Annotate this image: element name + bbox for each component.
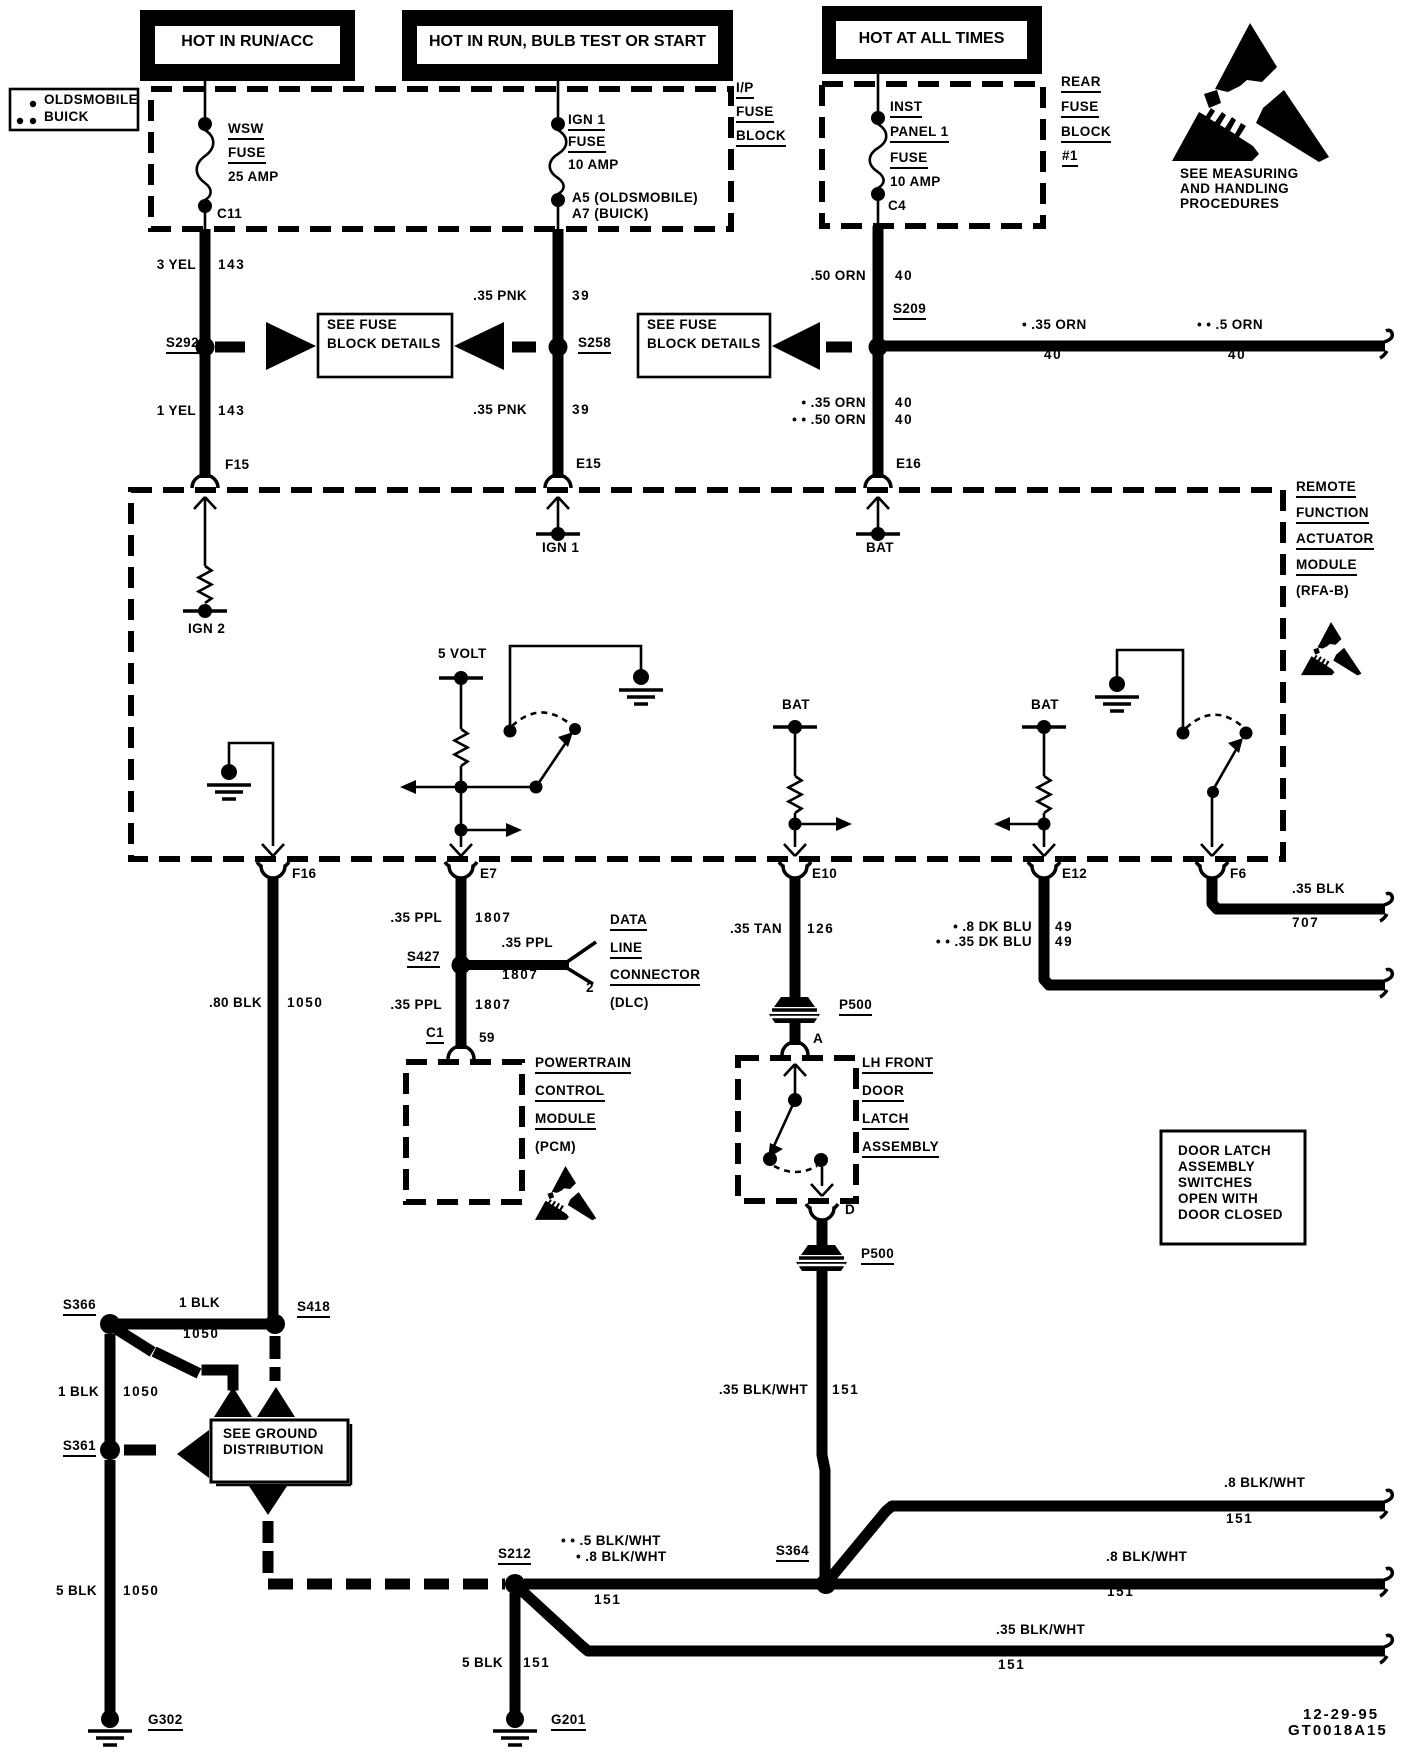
door latch note box [1161, 1131, 1305, 1244]
arrow S361 wire to ground distribution [177, 1430, 209, 1478]
connector F6 cup [1196, 862, 1228, 878]
pin E12 arrow down [1033, 844, 1055, 856]
label .80 BLK [209, 996, 262, 1010]
pin F6 arrow down [1201, 844, 1223, 856]
fuse IGN1 element [550, 130, 567, 194]
label HOT IN RUN/ACC [155, 34, 340, 50]
label 25 AMP [228, 170, 279, 184]
wire 5 BLK 151 (S212 to G201) [510, 1593, 521, 1713]
label 39 [572, 289, 590, 303]
wire C11 to box edge [204, 212, 207, 229]
label ASSEMBLY [1178, 1160, 1255, 1174]
label REAR [1061, 75, 1101, 93]
fuse WSW terminal dot top [198, 117, 212, 131]
label INST [890, 100, 922, 118]
label BLOCK [1061, 125, 1111, 143]
wire .80 BLK 1050 (F16 to S418) [268, 878, 279, 1320]
label 40 [895, 396, 913, 410]
label E15 [576, 457, 601, 471]
label S212 [498, 1547, 531, 1565]
label FUSE [568, 135, 606, 153]
wire .35 PNK 39 lower [553, 352, 564, 478]
SEE FUSE BLOCK DETAILS box 2 [638, 314, 770, 377]
label OPEN WITH [1178, 1192, 1258, 1206]
label AND HANDLING [1180, 182, 1289, 196]
wire DK BLU 49 (E12 right) [1044, 878, 1385, 985]
label 1050 [183, 1327, 219, 1341]
junction dot 5V ladder [455, 781, 468, 794]
label BLOCK DETAILS [647, 337, 761, 351]
junction dot E10 [789, 818, 802, 831]
dashed wire S361 to ground distribution arrow [124, 1445, 156, 1456]
label FUSE [1061, 100, 1099, 118]
ground inside RFA left (F16 circuit) [207, 764, 251, 799]
label ASSEMBLY [862, 1140, 939, 1158]
switch S2 blade with arrowhead [1213, 748, 1237, 790]
ground G302 [88, 1710, 132, 1745]
small ESD symbol in RFA [1301, 622, 1361, 676]
label 151 [998, 1658, 1025, 1672]
label SEE GROUND [223, 1427, 318, 1441]
label FUSE [228, 146, 266, 164]
label (RFA-B) [1296, 584, 1349, 598]
label IGN 1 [542, 541, 579, 555]
pin F16 arrow down [262, 844, 284, 856]
label SWITCHES [1178, 1176, 1252, 1190]
connector F15 cup [192, 475, 218, 488]
wire .35 PPL 1807 (S427 to C1) [456, 972, 467, 1049]
label 40 [895, 269, 913, 283]
DLC fork terminal [567, 942, 596, 984]
label • • .35 DK BLU [936, 935, 1032, 949]
label A7 (BUICK) [572, 207, 649, 221]
splice S366 [100, 1314, 120, 1334]
left arrow signal out [414, 786, 455, 789]
label .35 PNK [473, 403, 527, 417]
label 1 BLK [58, 1385, 99, 1399]
pin E7 arrow down [450, 836, 472, 856]
fuse INST element [870, 124, 887, 188]
wire end curl BLK 707 [1380, 893, 1392, 921]
label CONTROL [535, 1084, 605, 1102]
label 40 [895, 413, 913, 427]
connector E7 cup [445, 862, 477, 878]
ground inside RFA right (F6 circuit) [1095, 676, 1139, 711]
LH front door latch assembly dashed box [738, 1058, 856, 1201]
wire ORN down to E16 [873, 352, 884, 478]
label .8 BLK/WHT [1106, 1550, 1187, 1564]
dashed wire arrow to S209 [826, 342, 852, 353]
switch S1 blade with arrowhead [536, 741, 567, 787]
wire .35 BLK/WHT 151 lower branch [520, 1589, 1385, 1651]
label G201 [551, 1713, 586, 1731]
splice S212 [505, 1574, 525, 1594]
label S366 [63, 1298, 96, 1316]
I/P fuse block dashed box [151, 89, 731, 229]
node BAT E12 [1022, 720, 1066, 734]
label 49 [1055, 920, 1073, 934]
label 40 [1228, 348, 1246, 362]
small ESD symbol at PCM [535, 1166, 596, 1220]
label 151 [594, 1593, 621, 1607]
wire .8 BLK/WHT 151 upper branch [828, 1506, 1385, 1581]
dashed wire S258 to fuse details arrow [512, 342, 536, 353]
label .35 PNK [473, 289, 527, 303]
label F16 [292, 867, 316, 881]
label 1 YEL [157, 404, 196, 418]
splice S258 [549, 338, 568, 357]
label BLOCK [736, 129, 786, 147]
label OLDSMOBILE [44, 93, 138, 107]
label S364 [776, 1544, 809, 1562]
wire S427 to DLC fork [468, 960, 569, 970]
switch S1 throw dot [569, 723, 581, 735]
label ACTUATOR [1296, 532, 1374, 550]
label 707 [1292, 916, 1319, 930]
label • • .50 ORN [792, 413, 866, 427]
fuse INST terminal dot bottom C4 [871, 187, 885, 201]
wire 1 BLK 1050 (S366-S361) [105, 1334, 116, 1445]
node BAT E10 [773, 720, 817, 734]
junction dot E7 branch [455, 824, 468, 837]
label .35 PPL [390, 998, 442, 1012]
switch S1 travel dashed arc [512, 712, 570, 726]
latch switch pivot dot [788, 1093, 802, 1107]
label E16 [896, 457, 921, 471]
fuse IGN1 terminal dot bottom A5/A7 [551, 193, 565, 207]
resistor E12 pullup [1038, 776, 1051, 813]
junction dot E12 [1038, 818, 1051, 831]
latch switch lower contact dot [763, 1152, 777, 1166]
SEE GROUND DISTRIBUTION box [211, 1420, 351, 1485]
label 59 [479, 1031, 495, 1045]
switch S2 blade pivot dot [1207, 786, 1219, 798]
label E12 [1062, 867, 1087, 881]
left arrow signal out E12 [1008, 823, 1038, 826]
pin E15 arrow inside RFA [547, 497, 569, 528]
legend box OLDSMOBILE/BUICK [10, 89, 138, 130]
label 5 BLK [462, 1656, 503, 1670]
label F15 [225, 458, 249, 472]
label .50 ORN [811, 269, 866, 283]
fuse WSW terminal dot bottom C11 [198, 199, 212, 213]
label G302 [148, 1713, 183, 1731]
dashed wire S366 to ground distribution arrow [118, 1330, 233, 1385]
grommet P500 lower [796, 1245, 847, 1271]
right arrow signal out E10 [801, 823, 838, 826]
label HOT IN RUN, BULB TEST OR START [417, 34, 718, 50]
label 40 [1044, 348, 1062, 362]
wire ground to switch S2 fixed contact [1117, 650, 1183, 727]
splice S418 [265, 1314, 285, 1334]
label FUSE [736, 105, 774, 123]
dashed wire to S212 [268, 1579, 505, 1590]
label BAT [1031, 698, 1059, 712]
arrow into SEE FUSE BLOCK DETAILS box2 right side [772, 322, 820, 370]
ground G201 [493, 1710, 537, 1745]
label P500 [861, 1247, 894, 1265]
label MODULE [1296, 558, 1357, 576]
label DOOR [862, 1084, 904, 1102]
switch S2 fixed contact dot [1177, 727, 1190, 740]
label A [813, 1032, 823, 1046]
connector E16 cup [865, 475, 891, 488]
label 5 VOLT [438, 647, 487, 661]
label 10 AMP [890, 175, 941, 189]
label C11 [217, 207, 242, 221]
label S361 [63, 1439, 96, 1457]
label 151 [1107, 1585, 1134, 1599]
label HOT AT ALL TIMES [836, 31, 1027, 47]
pin E10 arrow down [784, 844, 806, 856]
label I/P [736, 81, 754, 99]
pin E16 arrow inside RFA [867, 497, 889, 528]
resistor inside RFA at F15 [199, 566, 212, 603]
resistor E10 pullup [789, 776, 802, 813]
label DOOR LATCH [1178, 1144, 1271, 1158]
splice S292 [196, 338, 215, 357]
label MODULE [535, 1112, 596, 1130]
label IGN 2 [188, 622, 225, 636]
label PROCEDURES [1180, 197, 1279, 211]
label 12-29-95 [1303, 1707, 1379, 1722]
label • .8 DK BLU [953, 920, 1032, 934]
label 1 BLK [179, 1296, 220, 1310]
label 143 [218, 258, 245, 272]
label WSW [228, 122, 264, 140]
wire .35 PPL 1807 (E7 to S427) [456, 878, 467, 958]
label • • .5 ORN [1197, 318, 1263, 332]
label LH FRONT [862, 1056, 933, 1074]
arrow S366 wire to ground distribution [214, 1387, 252, 1417]
label 151 [832, 1383, 859, 1397]
splice S364 [816, 1574, 836, 1594]
label BAT [866, 541, 894, 555]
label POWERTRAIN [535, 1056, 631, 1074]
label 49 [1055, 935, 1073, 949]
label 151 [523, 1656, 550, 1670]
wire end curl lower 151 [1380, 1635, 1392, 1663]
label 1050 [287, 996, 323, 1010]
label DISTRIBUTION [223, 1443, 324, 1457]
label LATCH [862, 1112, 909, 1130]
label BLOCK DETAILS [327, 337, 441, 351]
label 1050 [123, 1584, 159, 1598]
wire 1 BLK 1050 (S366-S418) [110, 1319, 275, 1330]
arrow into SEE FUSE BLOCK DETAILS (left box) [266, 322, 316, 370]
node IGN 2 [183, 604, 227, 618]
wire BAT to resistor E12 [1043, 734, 1046, 776]
wire resistor to pin E10 [794, 813, 797, 847]
label (PCM) [535, 1140, 576, 1154]
wire end curl upper 151 [1380, 1490, 1392, 1518]
wire end curl DK BLU 49 [1380, 969, 1392, 997]
splice S427 [452, 956, 471, 975]
label C4 [888, 199, 906, 213]
label IGN 1 [568, 113, 605, 131]
label GT0018A15 [1288, 1723, 1388, 1738]
label SEE FUSE [327, 318, 397, 332]
label FUSE [890, 151, 928, 169]
wire BAT to resistor E10 [794, 734, 797, 776]
wire 3 YEL 143 [200, 229, 211, 342]
wire resistor to junction [460, 766, 463, 831]
label .35 TAN [730, 922, 782, 936]
node BAT E16 [856, 527, 900, 541]
label .35 BLK/WHT [996, 1623, 1085, 1637]
pin A arrow inside latch box [784, 1064, 806, 1094]
label S427 [407, 950, 440, 968]
fuse INST PANEL 1 10A: wire from header [877, 74, 880, 111]
rear fuse block dashed box [822, 84, 1043, 226]
wire .8 BLK/WHT 151 middle branch [834, 1579, 1385, 1590]
label REMOTE [1296, 480, 1356, 498]
label 5 BLK [56, 1584, 97, 1598]
right arrow signal out [467, 829, 508, 832]
wire end curl right top [1380, 330, 1392, 358]
grommet P500 upper [769, 997, 820, 1023]
label SEE FUSE [647, 318, 717, 332]
label 2 [586, 981, 594, 995]
arrow S418 to ground distribution [257, 1387, 295, 1417]
pin F15 arrow inside RFA [194, 497, 216, 566]
label S418 [297, 1300, 330, 1318]
wire S212 to S364 [524, 1579, 820, 1590]
header box HOT IN RUN/ACC [140, 10, 355, 81]
label S209 [893, 302, 926, 320]
wire .50 ORN 40 [873, 226, 884, 342]
label .8 BLK/WHT [1224, 1476, 1305, 1490]
label S258 [578, 336, 611, 354]
label BAT [782, 698, 810, 712]
switch S2 travel dashed arc [1186, 715, 1243, 728]
PCM dashed box [406, 1062, 522, 1202]
label 39 [572, 403, 590, 417]
resistor 5V divider [455, 729, 468, 766]
arrow ground distribution down to S212 run [249, 1486, 287, 1515]
pin D arrow down [811, 1184, 833, 1196]
label E7 [480, 867, 497, 881]
fuse WSW 25A: wire from header [204, 81, 207, 117]
label 1050 [123, 1385, 159, 1399]
label BUICK [44, 110, 89, 124]
label • .35 ORN [1022, 318, 1087, 332]
splice S361 [100, 1440, 120, 1460]
label 143 [218, 404, 245, 418]
wire fixed contact to internal ground [510, 646, 641, 730]
label CONNECTOR [610, 968, 700, 986]
dashed wire S292 to fuse details arrow [215, 342, 245, 353]
label DOOR CLOSED [1178, 1208, 1283, 1222]
wire end curl middle 151 [1380, 1568, 1392, 1596]
node IGN 1 [536, 527, 580, 541]
label D [845, 1203, 855, 1217]
fuse INST terminal dot top [871, 111, 885, 125]
label PANEL 1 [890, 125, 949, 143]
label 1807 [502, 968, 538, 982]
wire junction to switch contact [461, 786, 531, 789]
label LINE [610, 941, 642, 959]
ground inside RFA center [619, 669, 663, 704]
dashed wire S418 to ground distribution arrow [270, 1336, 281, 1381]
label • • .5 BLK/WHT [561, 1534, 661, 1548]
wire throw to pin D [821, 1167, 824, 1186]
dashed wire down from arrow [263, 1521, 274, 1573]
label 126 [807, 922, 834, 936]
ESD symbol top right [1172, 23, 1329, 162]
latch switch throw dot D [814, 1153, 828, 1167]
switch S1 fixed contact dot [504, 725, 517, 738]
connector A cup into latch assembly [782, 1042, 808, 1055]
switch S2 throw dot [1240, 727, 1253, 740]
label F6 [1230, 867, 1247, 881]
wire P500 to A [790, 1022, 801, 1045]
switch S1 lower contact dot [530, 781, 543, 794]
label • .8 BLK/WHT [576, 1550, 667, 1564]
fuse WSW element [197, 130, 214, 200]
label • .35 ORN [801, 396, 866, 410]
connector E12 cup [1028, 862, 1060, 878]
wire .35 BLK/WHT 151 (P500 to S364) [822, 1271, 825, 1579]
label .35 PPL [390, 911, 442, 925]
label DATA [610, 913, 647, 931]
wire 5 BLK 1050 (S361 to G302) [105, 1460, 116, 1713]
label FUNCTION [1296, 506, 1369, 524]
wire A5 to box edge [557, 206, 560, 229]
label E10 [812, 867, 837, 881]
label 1807 [475, 998, 511, 1012]
wire blade to pin F6 [1211, 796, 1214, 847]
label .35 BLK/WHT [719, 1383, 808, 1397]
wire resistor to pin E12 [1043, 813, 1046, 847]
connector E10 cup [779, 862, 811, 878]
fuse IGN 1 10A: wire from header [557, 81, 560, 117]
SEE FUSE BLOCK DETAILS box 1 [318, 314, 452, 377]
wire D to P500 lower [817, 1220, 828, 1245]
long wire .35/.5 ORN 40 to right [885, 341, 1385, 352]
arrow into SEE FUSE BLOCK DETAILS box1 right side [454, 322, 504, 370]
label P500 [839, 998, 872, 1016]
label 151 [1226, 1512, 1253, 1526]
label S292 [166, 336, 199, 354]
label SEE MEASURING [1180, 167, 1298, 181]
connector E15 cup [545, 475, 571, 488]
wire .35 TAN 126 (E10 down) [790, 878, 801, 997]
wire 1 YEL 143 [200, 352, 211, 478]
label (DLC) [610, 996, 649, 1010]
connector F16 cup [257, 862, 289, 878]
latch switch blade with arrowhead [773, 1100, 795, 1148]
label #1 [1062, 149, 1078, 167]
splice S209 [869, 338, 888, 357]
wire ground to F16 pin [229, 743, 273, 846]
wire .35 PNK 39 upper [553, 229, 564, 342]
fuse IGN1 terminal dot top [551, 117, 565, 131]
connector C1 cup into PCM [448, 1046, 474, 1059]
label 3 YEL [157, 258, 196, 272]
wire .35 BLK 707 (F6 right) [1212, 878, 1385, 909]
header box HOT AT ALL TIMES [822, 6, 1042, 74]
latch switch travel dashed arc [774, 1166, 817, 1172]
wire C4 to box edge [877, 200, 880, 226]
label .35 BLK [1292, 882, 1345, 896]
label C1 [426, 1026, 444, 1044]
header box HOT IN RUN, BULB TEST OR START [402, 10, 733, 81]
5 VOLT node [439, 671, 483, 685]
connector D cup [806, 1204, 838, 1220]
label .35 PPL [501, 936, 553, 950]
label 1807 [475, 911, 511, 925]
